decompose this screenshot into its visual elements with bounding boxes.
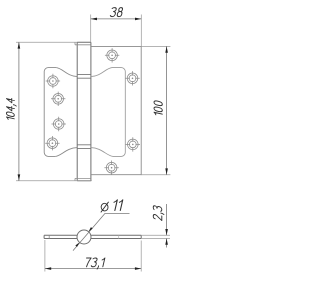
dia 11 leader arrow upper (points to circle) [89,227,93,232]
dimension 100: text (rotated) [154,100,162,116]
front view: hinge barrel (knuckle column) outline [77,42,91,180]
dimension 100: top arrow [165,46,168,52]
dimension 104,4: text (rotated) [6,97,16,121]
dimension 2,3: upper arrow [165,229,168,235]
dimension 38: right arrow [135,18,141,21]
dimension 73,1: text [84,258,104,269]
screw hole right leaf 2 [125,71,139,85]
dimension 2,3: extension lines (bar edges extended) [141,235,170,238]
dimension 38: left arrow [91,18,97,21]
dimension 2,3: lower arrow [165,239,168,245]
barrel pin cap line top [75,42,91,45]
dimension 38: text [110,8,123,17]
screw hole left leaf 2 [51,92,65,106]
dimension 104,4: bottom arrow [18,174,21,180]
knuckle joint lines bottom [77,145,91,149]
dimension 73,1: extension lines [45,240,141,272]
bottom view: barrel circle (d11) [77,230,91,244]
screw hole left leaf 4 [45,136,59,150]
bottom view: leaf bar top line [44,234,141,236]
dia 11 leader line through circle [73,213,130,250]
screw hole right leaf 4 [104,161,118,175]
dimension 2,3: text (rotated) [153,205,164,220]
dimension 104,4: dimension line [18,42,20,180]
bottom view: leaf step line right [118,235,120,238]
screw hole right leaf 1 [105,48,119,62]
left leaf outline [44,68,56,157]
right leaf outline [91,46,141,174]
dimension 2,3: dimension line upper segment [166,204,168,235]
dia 11 leader arrow lower (points to circle) [75,242,79,247]
dimension 2,3: dimension line lower segment [166,239,168,248]
bottom view: leaf step line left [48,235,50,238]
left leaf neck S-curve top [56,68,77,77]
dimension 100: bottom arrow [165,168,168,174]
dimension 104,4: top arrow [18,42,21,48]
dia 11 label: diameter symbol [100,202,108,213]
screw hole left leaf 3 [52,117,66,131]
dimension 104,4: extension lines [16,42,92,180]
right leaf recess outline (mirrored silhouette) [91,68,125,157]
dimension 100: extension lines [141,46,170,174]
screw hole left leaf 1 [46,74,60,88]
dimension 73,1: dimension line [45,268,141,270]
bottom view: leaf bar bottom line [44,238,141,240]
dimension 38: extension lines [91,15,142,47]
dimension 73,1: left arrow [45,267,51,270]
bottom view: bar left end cap [43,235,45,238]
knuckle joint lines top [77,74,91,78]
dimension 100: dimension line [166,46,168,174]
dimension 38: dimension line [91,18,142,20]
screw hole right leaf 3 [126,137,140,151]
bottom view: bar right end cap [140,235,142,238]
dimension 73,1: right arrow [135,267,141,270]
barrel pin cap line bottom [75,178,91,180]
left leaf neck S-curve bottom [55,148,77,157]
dia 11 label: text 11 [112,200,123,211]
